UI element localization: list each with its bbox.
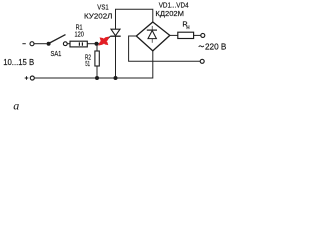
switch SA1 lever bbox=[49, 35, 66, 44]
bridge inner diode bar bbox=[147, 29, 157, 31]
terminal ~220V bottom bbox=[200, 59, 204, 63]
svg-text:КУ202Л: КУ202Л bbox=[84, 11, 113, 20]
terminal switch contact bbox=[63, 42, 67, 46]
wire R1 to node bbox=[87, 43, 96, 45]
svg-text:н: н bbox=[186, 24, 189, 31]
resistor R1 power-rating marks bbox=[79, 42, 82, 45]
svg-text:120: 120 bbox=[75, 30, 84, 39]
thyristor VS1 triangle bbox=[111, 29, 120, 36]
svg-text:VS1: VS1 bbox=[97, 3, 108, 12]
switch pivot dot bbox=[47, 42, 51, 46]
node junction R2 bottom bbox=[95, 76, 99, 80]
label ~220 V tilde bbox=[199, 46, 204, 47]
svg-text:10...15 В: 10...15 В bbox=[3, 58, 34, 67]
terminal - input bbox=[30, 42, 34, 46]
wire gate of VS1 bbox=[97, 36, 111, 44]
resistor R2 bbox=[95, 51, 99, 66]
svg-text:а: а bbox=[13, 98, 19, 112]
wire bottom rail to bridge bottom bbox=[34, 51, 153, 78]
wire switch to R1 bbox=[67, 43, 70, 45]
resistor Rn bbox=[178, 32, 194, 38]
svg-text:51: 51 bbox=[85, 59, 90, 68]
wire bridge left to lower terminal bbox=[129, 36, 201, 61]
wire input to switch bbox=[34, 43, 47, 45]
svg-text:КД202М: КД202М bbox=[155, 9, 184, 18]
node junction cathode bottom bbox=[114, 76, 118, 80]
svg-text:SA1: SA1 bbox=[51, 49, 62, 58]
bridge VD1-VD4 diamond bbox=[136, 22, 170, 51]
wire VS1 cathode down bbox=[115, 36, 117, 78]
bridge inner diode triangle bbox=[148, 31, 156, 39]
node junction R1/R2/gate bbox=[95, 42, 99, 46]
resistor R1 bbox=[70, 41, 87, 47]
red X mark bbox=[98, 37, 109, 46]
bridge inner diode axis bbox=[151, 26, 153, 43]
wire VS1 anode to bridge top bbox=[116, 9, 153, 29]
wire R2 bottom lead bbox=[96, 66, 98, 78]
svg-text:220 В: 220 В bbox=[205, 43, 226, 52]
plus label bbox=[25, 76, 29, 80]
minus label bbox=[22, 43, 25, 45]
wire bridge right to Rn bbox=[170, 34, 178, 36]
wire Rn to terminal bbox=[194, 34, 201, 36]
wire R2 top lead bbox=[96, 44, 98, 51]
thyristor VS1 cathode bar bbox=[110, 35, 120, 37]
terminal ~220V top bbox=[201, 33, 205, 37]
terminal + input bbox=[30, 76, 34, 80]
